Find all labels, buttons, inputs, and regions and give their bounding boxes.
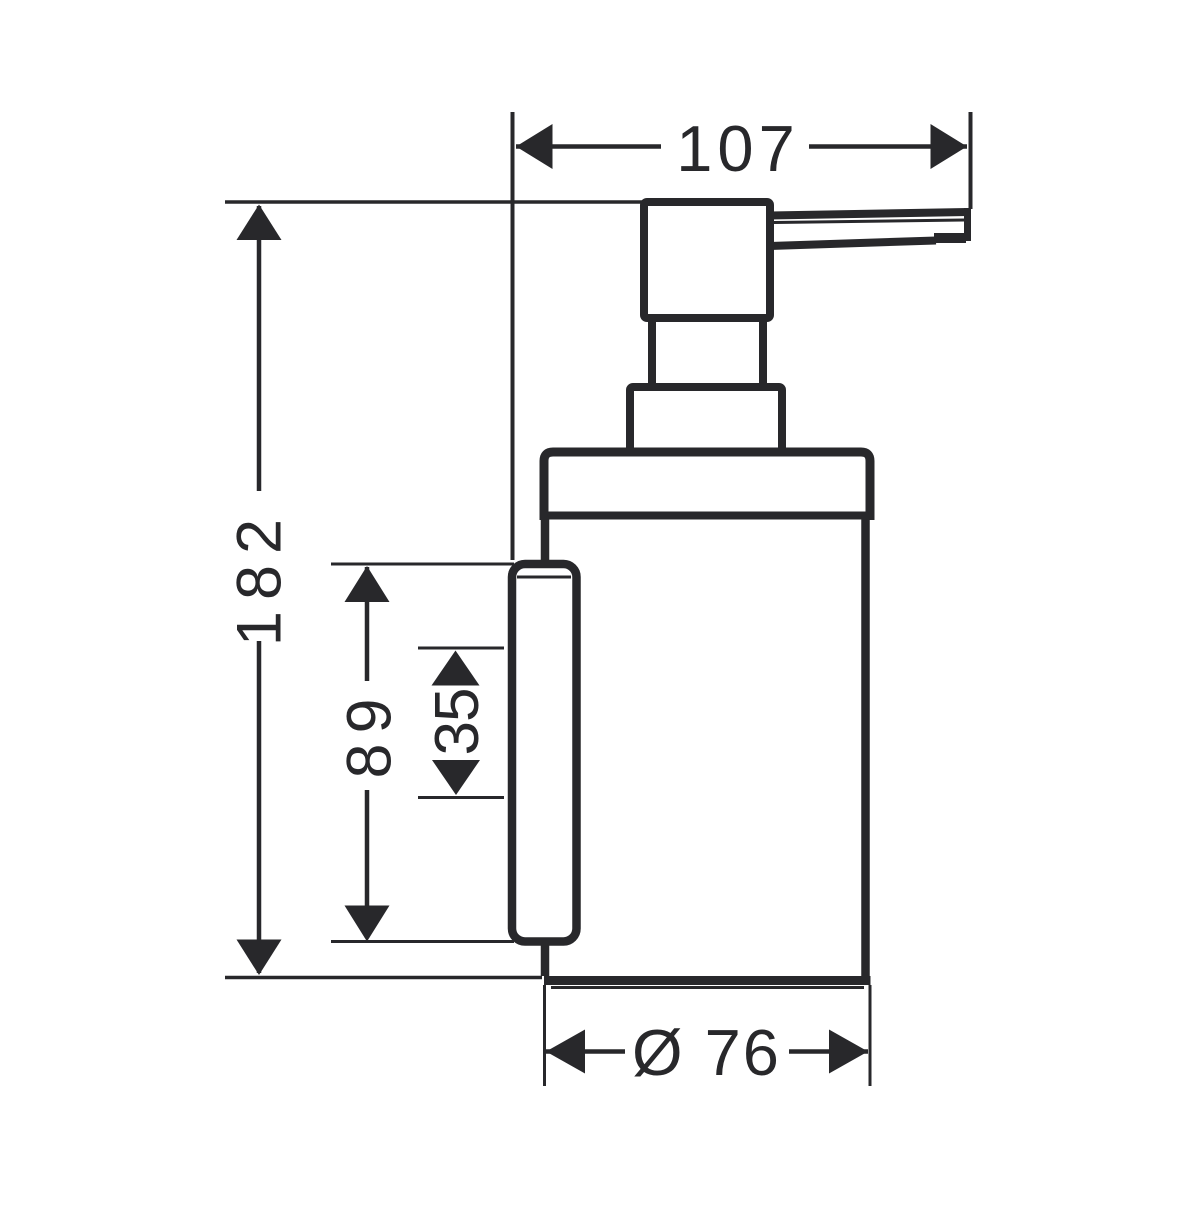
- arrow 89 bottom: [345, 906, 390, 942]
- text gap 76: [625, 1022, 789, 1080]
- body base thin line: [551, 986, 864, 989]
- body bottom edge: [544, 976, 871, 985]
- dim 89 top extension line: [331, 563, 514, 566]
- arrow 35 top: [432, 651, 480, 686]
- arrow 89 top: [345, 566, 390, 602]
- svg-text:Ø 76: Ø 76: [632, 1016, 781, 1089]
- dim 76 right extension line: [869, 985, 872, 1086]
- text gap 107: [661, 116, 809, 176]
- container cap bottom line: [544, 512, 870, 520]
- dim 89 bottom extension line: [331, 940, 514, 943]
- spout tip step: [934, 233, 966, 243]
- bracket inner top line: [517, 576, 571, 579]
- dim 35 top extension line: [418, 647, 504, 650]
- dim 182 line: [257, 206, 262, 973]
- wall bracket: [512, 564, 577, 942]
- dim 182 top extension line: [225, 200, 644, 204]
- container cap outline: [544, 452, 870, 520]
- spout inner top line: [774, 220, 964, 223]
- dim 76 left extension line: [543, 985, 546, 1086]
- dim 76 line: [546, 1049, 868, 1054]
- spout end wall: [964, 208, 971, 241]
- text gap 182: [230, 491, 288, 641]
- pump head: [644, 202, 770, 318]
- svg-text:89: 89: [335, 688, 405, 778]
- body right wall: [861, 516, 870, 977]
- body left wall: [541, 516, 550, 977]
- svg-text:35: 35: [423, 689, 492, 756]
- arrow 107 right: [931, 124, 968, 169]
- dim 89 line: [365, 567, 370, 938]
- spout bottom edge: [770, 241, 936, 247]
- arrow 76 right: [829, 1030, 868, 1074]
- dim 107 right extension line: [969, 112, 973, 209]
- arrow 35 bottom: [432, 760, 480, 795]
- dim 107 line: [516, 144, 967, 149]
- dim 35 bottom extension line: [418, 796, 504, 799]
- text gap 89: [339, 681, 395, 790]
- dim 107 left extension line: [511, 112, 515, 560]
- arrow 76 left: [546, 1030, 585, 1074]
- spout top edge: [770, 212, 968, 216]
- pump flange: [630, 387, 782, 452]
- dim 182 bottom extension line: [225, 976, 542, 980]
- arrow 182 bottom: [237, 940, 282, 976]
- svg-text:107: 107: [676, 112, 799, 185]
- arrow 182 top: [237, 205, 282, 241]
- svg-text:182: 182: [225, 508, 295, 646]
- arrow 107 left: [516, 124, 553, 169]
- pump neck: [652, 318, 763, 387]
